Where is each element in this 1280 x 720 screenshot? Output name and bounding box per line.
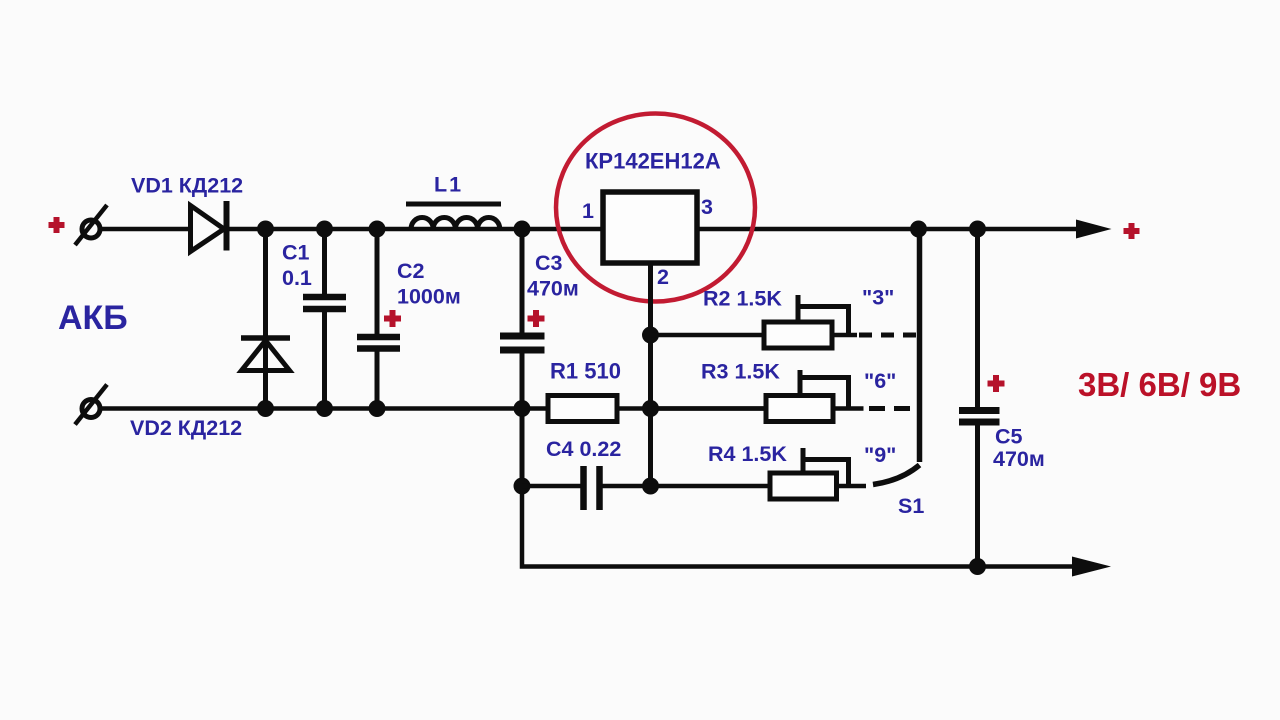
svg-text:"9": "9"	[864, 443, 896, 467]
svg-text:S1: S1	[898, 494, 924, 518]
wire pin2 vertical	[648, 263, 653, 486]
svg-text:КР142ЕН12А: КР142ЕН12А	[585, 149, 721, 174]
capacitor C4	[522, 466, 651, 510]
svg-text:1000м: 1000м	[397, 285, 461, 309]
capacitor C5	[959, 229, 1000, 567]
wire dashed contact 3	[859, 333, 917, 338]
svg-text:АКБ: АКБ	[58, 299, 128, 337]
node junction C2-bottom	[369, 400, 386, 417]
polarity plus C5	[988, 375, 1005, 392]
svg-text:R3 1.5K: R3 1.5K	[701, 360, 780, 384]
svg-text:VD2 КД212: VD2 КД212	[130, 416, 242, 440]
svg-text:1: 1	[582, 199, 594, 223]
terminal input plus	[49, 217, 65, 233]
node junction C5-bottom	[969, 558, 986, 575]
svg-text:0.1: 0.1	[282, 266, 312, 290]
resistor R3 with tap	[651, 370, 864, 422]
capacitor C3	[500, 229, 545, 409]
resistor R1	[548, 396, 617, 422]
node junction top A	[257, 221, 274, 238]
node junction pin2-R1R3	[642, 400, 659, 417]
capacitor C1	[303, 229, 346, 409]
svg-text:"6": "6"	[864, 369, 896, 393]
capacitor C2	[357, 229, 400, 409]
switch S1 arm	[873, 465, 920, 485]
svg-text:2: 2	[657, 265, 669, 289]
node junction top B	[316, 221, 333, 238]
svg-text:R1 510: R1 510	[550, 359, 621, 384]
node junction after L1	[514, 221, 531, 238]
wire ground return rail	[522, 409, 1083, 567]
node junction C4-left	[514, 478, 531, 495]
diode VD1	[191, 201, 227, 252]
wire dashed contact 6	[869, 406, 917, 411]
svg-text:470м: 470м	[527, 277, 579, 301]
svg-text:R4 1.5K: R4 1.5K	[708, 442, 787, 466]
node junction C1-bottom	[316, 400, 333, 417]
svg-text:C3: C3	[535, 251, 563, 275]
resistor R4 with tap	[651, 448, 867, 499]
node junction C5-top	[969, 221, 986, 238]
op-amp U1 regulator КР142ЕН12А	[603, 192, 697, 263]
svg-text:"3": "3"	[862, 286, 894, 310]
diode VD2	[241, 229, 290, 409]
svg-text:C2: C2	[397, 259, 425, 283]
node junction pin2-C4R4	[642, 478, 659, 495]
wire bottom rail	[100, 406, 766, 411]
inductor L1	[406, 204, 501, 229]
svg-text:R2 1.5K: R2 1.5K	[703, 287, 782, 311]
polarity plus C3	[528, 310, 545, 327]
output plus sign	[1124, 223, 1140, 239]
svg-text:VD1 КД212: VD1 КД212	[131, 174, 243, 198]
svg-text:3: 3	[701, 195, 713, 219]
output arrow plus rail	[1076, 220, 1112, 239]
terminal top input	[75, 205, 107, 245]
terminal bottom input	[75, 385, 107, 425]
node junction bus-top	[910, 221, 927, 238]
node junction C3-bottom	[514, 400, 531, 417]
svg-text:C5: C5	[995, 425, 1023, 449]
svg-text:C1: C1	[282, 241, 310, 265]
node junction VD2-bottom	[257, 400, 274, 417]
svg-text:C4 0.22: C4 0.22	[546, 437, 621, 461]
node junction pin2-R2	[642, 327, 659, 344]
wire top rail	[100, 227, 1082, 232]
output arrow return rail	[1072, 557, 1111, 577]
node junction top C	[369, 221, 386, 238]
svg-text:470м: 470м	[993, 447, 1045, 471]
svg-text:3В/ 6В/ 9В: 3В/ 6В/ 9В	[1078, 366, 1241, 403]
switch S1 bus wire	[917, 229, 923, 462]
highlight circle around regulator	[556, 114, 755, 302]
resistor R2 with tap	[651, 295, 858, 348]
svg-text:L1: L1	[434, 173, 463, 197]
polarity plus C2	[384, 310, 401, 327]
